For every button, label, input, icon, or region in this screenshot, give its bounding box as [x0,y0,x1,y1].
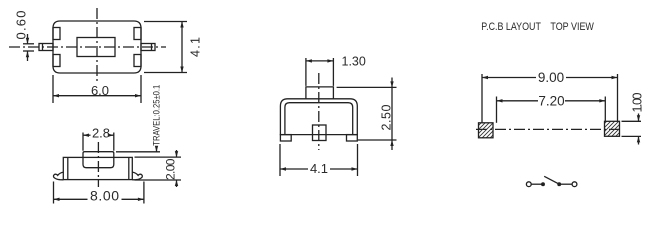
svg-text:7.20: 7.20 [538,93,564,108]
svg-text:1.30: 1.30 [342,55,366,69]
svg-text:TOP VIEW: TOP VIEW [550,21,594,33]
svg-text:9.00: 9.00 [538,70,564,85]
svg-text:4.1: 4.1 [189,37,203,57]
svg-text:P.C.B LAYOUT: P.C.B LAYOUT [481,21,541,33]
svg-text:6.0: 6.0 [91,83,109,98]
svg-text:2.00: 2.00 [164,158,178,180]
svg-text:4.1: 4.1 [310,161,328,176]
svg-text:0.60: 0.60 [13,11,28,40]
svg-text:1.00: 1.00 [631,92,645,112]
svg-text:2.8: 2.8 [92,126,110,141]
svg-text:8.00: 8.00 [90,188,119,204]
svg-text:2.50: 2.50 [380,104,394,130]
svg-text:TRAVEL:0.25±0.1: TRAVEL:0.25±0.1 [151,85,162,146]
